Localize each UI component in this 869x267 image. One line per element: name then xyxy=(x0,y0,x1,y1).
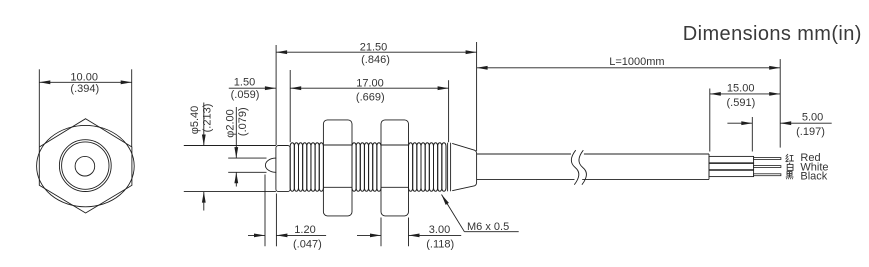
dim 10.00 (.394) dimension line xyxy=(39,81,131,83)
front view sensing ring outer circle xyxy=(59,140,111,192)
hex nut 1 side view xyxy=(323,120,352,216)
wire 2 insulated (white) xyxy=(709,163,754,170)
svg-text:(.846): (.846) xyxy=(361,54,390,66)
svg-text:(.394): (.394) xyxy=(70,83,99,95)
svg-text:(.197): (.197) xyxy=(796,126,825,138)
dim 1.20 (.047) extension lines xyxy=(264,175,266,247)
cable break squiggle left xyxy=(571,150,579,185)
dim phi5.40 leader arrows xyxy=(203,103,205,146)
wire 1 insulated (red) xyxy=(709,156,754,163)
hex nut 2 side view xyxy=(381,120,409,216)
wire 3 bare conductor xyxy=(754,174,781,176)
thread section 3 (M6x0.5 crests) xyxy=(409,143,413,192)
front view hexagon body (across-flats) xyxy=(39,119,132,213)
dim 3.00 (.118) extension lines xyxy=(380,218,382,247)
thread section 1 (M6x0.5 crests) xyxy=(290,143,294,192)
dim 5.00 (.197) dimension line arrows xyxy=(727,122,752,124)
dim 5.00 extension line (insulation end) xyxy=(751,117,753,152)
svg-text:17.00: 17.00 xyxy=(356,77,384,89)
dim phi5.40 extension line bottom xyxy=(184,191,276,193)
svg-text:(.047): (.047) xyxy=(293,239,322,251)
dim 17.00 (.669) extension lines xyxy=(289,70,291,142)
svg-text:3.00: 3.00 xyxy=(429,224,450,236)
svg-text:Black: Black xyxy=(800,171,827,183)
dim L/15.00 shared extension line right xyxy=(779,59,781,148)
svg-text:5.00: 5.00 xyxy=(802,112,823,124)
svg-text:(.213): (.213) xyxy=(201,104,213,133)
dim 15.00 extension line left (jacket end) xyxy=(709,89,711,152)
dim phi5.40 extension line top xyxy=(184,145,276,147)
label M6 x 0.5 leader line with arrow xyxy=(442,195,465,232)
wire 2 bare conductor xyxy=(754,166,781,168)
front view sensing ring inner circle xyxy=(62,142,109,189)
svg-text:(.079): (.079) xyxy=(237,107,249,136)
thread end boundary line xyxy=(447,143,449,192)
side view: head collar phi5.4 xyxy=(276,146,290,192)
dim 21.50 (.846) dimension line xyxy=(276,51,477,53)
svg-text:φ2.00: φ2.00 xyxy=(224,109,236,138)
svg-text:(.591): (.591) xyxy=(727,97,756,109)
svg-text:φ5.40: φ5.40 xyxy=(189,106,201,135)
dim 21.50 (.846) extension lines xyxy=(275,45,277,145)
label CJK white xyxy=(787,163,793,171)
svg-text:M6 x 0.5: M6 x 0.5 xyxy=(467,221,509,233)
thread section 2 (M6x0.5 crests) xyxy=(352,143,356,192)
cable jacket top line xyxy=(477,153,571,155)
dim L=1000mm dimension line xyxy=(477,67,781,69)
wire 3 insulated (black) xyxy=(709,170,754,177)
dim phi2.00 extension line top xyxy=(228,157,266,159)
dim 17.00 (.669) dimension line xyxy=(290,87,448,89)
dim phi2.00 extension line bottom xyxy=(228,171,266,173)
side view: sensing tip half-ellipse phi2 xyxy=(265,158,276,172)
dim 3.00 (.118) dimension line xyxy=(357,234,381,236)
label CJK red xyxy=(786,154,794,162)
dim 10.00 (.394) extension lines xyxy=(38,69,40,146)
svg-text:(.118): (.118) xyxy=(426,239,454,251)
svg-text:1.50: 1.50 xyxy=(234,76,255,88)
wire boundary emphasis lines xyxy=(709,162,754,164)
dim phi2.00 leader arrows xyxy=(235,107,237,158)
cable jacket end line xyxy=(708,154,710,179)
dim 15.00 (.591) dimension line xyxy=(710,93,780,95)
svg-text:21.50: 21.50 xyxy=(360,41,388,53)
dim 1.50 (.059) dimension line with arrow xyxy=(229,87,276,89)
label CJK black xyxy=(786,172,794,180)
svg-text:(.059): (.059) xyxy=(231,89,260,101)
front view center hole circle xyxy=(75,156,95,176)
svg-text:1.20: 1.20 xyxy=(294,224,315,236)
cone end face line xyxy=(450,143,452,192)
svg-text:L=1000mm: L=1000mm xyxy=(609,56,664,68)
front view body outer circle (chamfer circle) xyxy=(37,125,135,206)
svg-text:Dimensions mm(in): Dimensions mm(in) xyxy=(683,23,862,45)
wire 1 bare conductor xyxy=(754,158,781,160)
svg-text:15.00: 15.00 xyxy=(727,83,755,95)
cable jacket bottom line xyxy=(477,178,575,180)
cable break squiggle right xyxy=(579,150,587,185)
cable exit cone outline xyxy=(452,143,476,190)
svg-text:(.669): (.669) xyxy=(356,91,385,103)
dim 1.20 (.047) dimension line xyxy=(248,234,265,236)
